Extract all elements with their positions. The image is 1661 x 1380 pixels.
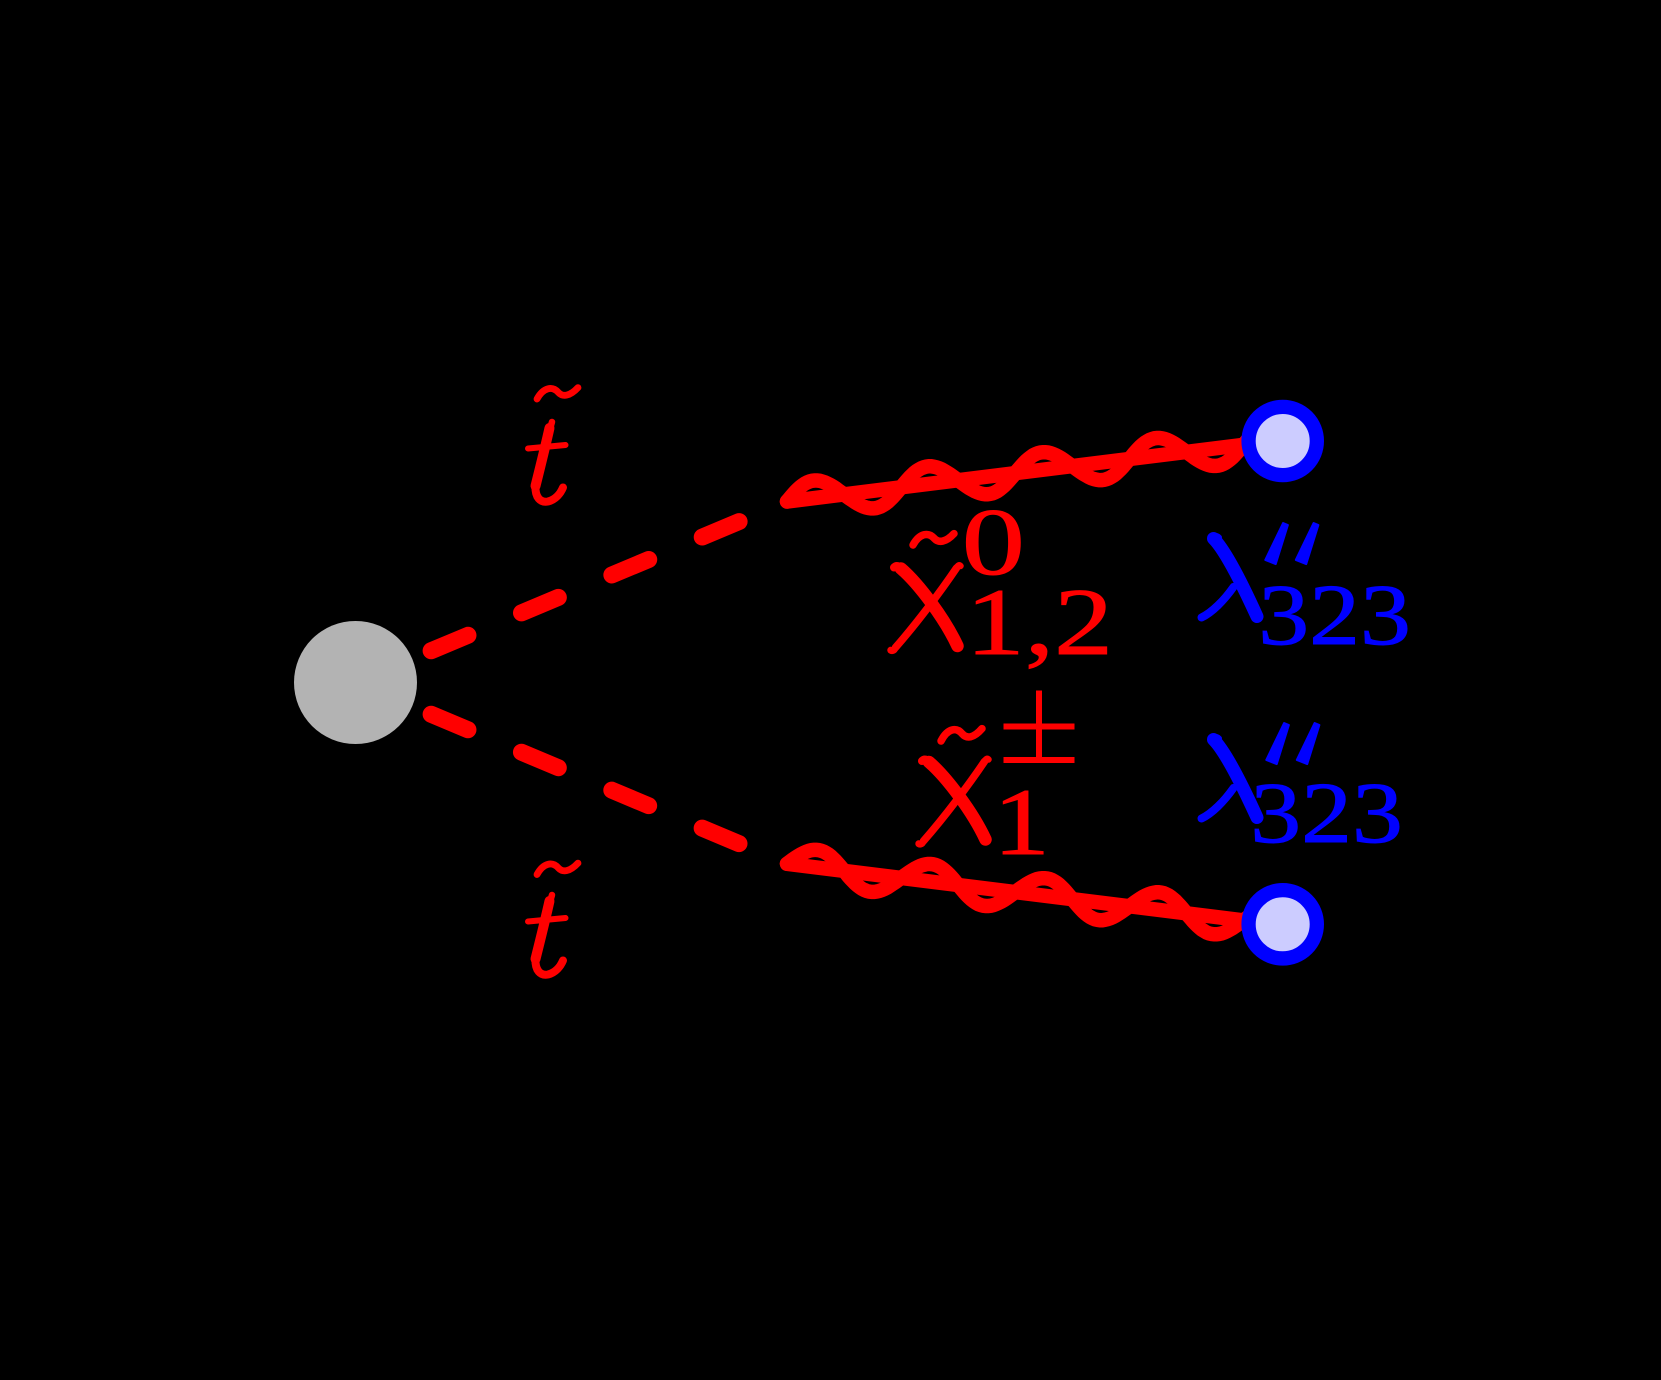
svg-text:323: 323 xyxy=(1250,766,1403,862)
double prime pr_top xyxy=(1265,523,1288,564)
lambda glyph bottom xyxy=(1202,737,1258,819)
stop squark line t~ (top, red dashed) xyxy=(412,502,787,659)
neutralino chi0 line (top wavy) xyxy=(787,440,1283,502)
RPV coupling vertex (bottom blue circle) xyxy=(1249,890,1317,958)
neutralino label chi (custom glyph) xyxy=(891,565,961,650)
production vertex blob xyxy=(294,621,417,744)
lambda glyph top xyxy=(1202,536,1258,618)
svg-text:1: 1 xyxy=(993,769,1050,875)
svg-text:323: 323 xyxy=(1258,568,1411,664)
svg-text:1,2: 1,2 xyxy=(966,571,1113,676)
RPV coupling vertex (top blue circle) xyxy=(1249,407,1317,475)
tilde accent til_chi_n xyxy=(913,534,954,545)
stop label t (custom glyph, top) xyxy=(528,422,566,502)
chargino chi+- line (bottom wavy) xyxy=(787,864,1283,926)
chargino label chi (custom glyph) xyxy=(919,759,989,844)
tilde accent til_t_bot xyxy=(537,863,578,874)
tilde accent til_t_top xyxy=(537,388,578,399)
double prime pr_bot xyxy=(1266,723,1289,764)
tilde accent til_chi_c xyxy=(941,729,982,741)
antistop squark line t~ (bottom, red dashed) xyxy=(412,706,787,864)
antistop label t (custom glyph, bottom) xyxy=(528,895,566,975)
plus-minus superscript of chargino xyxy=(1004,691,1075,761)
